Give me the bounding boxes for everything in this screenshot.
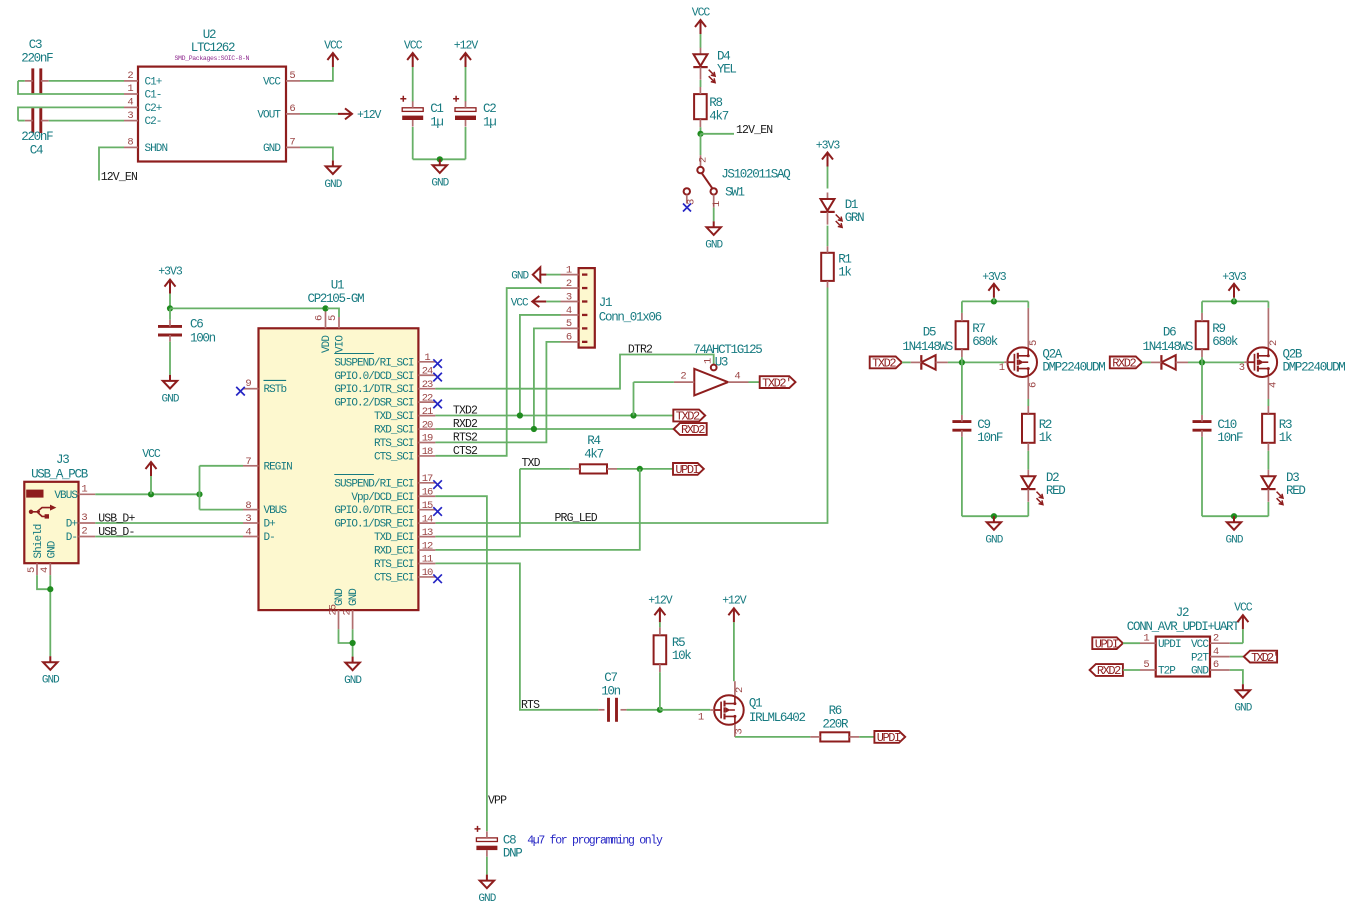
wire: [827, 226, 829, 247]
wire: [700, 127, 702, 134]
wire RTS: [435, 563, 598, 709]
svg-text:3: 3: [81, 512, 87, 524]
wire: [948, 361, 1004, 363]
svg-text:RXD2: RXD2: [681, 423, 705, 437]
wire: [660, 709, 710, 711]
svg-text:3: 3: [734, 729, 746, 735]
label RXD2: [453, 418, 478, 431]
svg-text:VCC: VCC: [692, 7, 711, 20]
wire: [95, 493, 199, 495]
IC U1 CP2105-GM: [243, 279, 435, 630]
label TXD2: [453, 405, 478, 418]
svg-text:C4: C4: [30, 144, 43, 158]
power +12V: [338, 108, 382, 122]
power VCC: [324, 40, 343, 68]
svg-text:T2P: T2P: [1158, 666, 1176, 678]
wire: [634, 381, 674, 383]
svg-text:1k: 1k: [1039, 431, 1052, 445]
svg-text:VCC: VCC: [142, 448, 161, 461]
svg-text:DMP2240UDM: DMP2240UDM: [1283, 361, 1346, 375]
ground: [42, 656, 60, 686]
power VCC: [1234, 602, 1253, 644]
svg-text:2: 2: [1268, 340, 1280, 346]
svg-text:1: 1: [424, 352, 430, 364]
wire: [962, 515, 1028, 517]
svg-text:R9: R9: [1212, 322, 1225, 336]
connector J2 CONN_AVR_UPDI+UART: [1127, 606, 1240, 678]
wire: [1188, 361, 1244, 363]
svg-text:4: 4: [734, 371, 740, 383]
wire: [749, 381, 760, 383]
wire: [1027, 301, 1029, 308]
wire: [327, 308, 339, 317]
wire: [961, 437, 963, 516]
svg-text:1: 1: [81, 484, 87, 496]
label VPP: [488, 795, 507, 808]
svg-text:11: 11: [422, 554, 433, 566]
wire: [534, 328, 561, 429]
resistor R8: [694, 87, 729, 127]
resistor R4: [570, 434, 617, 473]
wire: [961, 362, 963, 415]
svg-text:4k7: 4k7: [584, 448, 603, 462]
wire: [37, 575, 50, 589]
junction: [959, 359, 965, 365]
svg-text:15: 15: [422, 500, 433, 512]
power +3V3: [1222, 271, 1247, 301]
svg-text:+12V: +12V: [722, 594, 747, 607]
capacitor C3: [21, 38, 53, 93]
svg-text:GND: GND: [1226, 535, 1244, 547]
wire: [627, 709, 660, 711]
svg-text:5: 5: [1143, 659, 1149, 671]
svg-text:R5: R5: [672, 636, 685, 650]
junction: [991, 513, 997, 519]
svg-text:R6: R6: [829, 704, 842, 718]
no-connect: [236, 387, 245, 396]
svg-text:Q1: Q1: [749, 697, 762, 711]
svg-text:UPDI: UPDI: [1158, 639, 1181, 651]
junction: [148, 491, 154, 497]
svg-text:4µ7 for programming only: 4µ7 for programming only: [527, 835, 663, 848]
junction: [1199, 359, 1205, 365]
wire RXD2: [435, 428, 673, 430]
svg-text:SW1: SW1: [725, 186, 744, 200]
svg-text:C1-: C1-: [145, 90, 162, 102]
capacitor C7: [598, 671, 626, 722]
svg-text:220nF: 220nF: [21, 52, 53, 66]
label 12V_EN: [101, 171, 137, 184]
svg-text:Shield: Shield: [33, 524, 45, 558]
svg-text:GND: GND: [334, 588, 346, 606]
power VCC: [511, 296, 547, 309]
no-connect: [433, 359, 442, 368]
svg-text:GND: GND: [47, 540, 59, 558]
junction: [657, 707, 663, 713]
global label TXD2: [673, 410, 705, 424]
ground: [324, 160, 342, 190]
svg-text:Q2B: Q2B: [1283, 348, 1303, 362]
junction: [991, 298, 997, 304]
wire VPP: [435, 496, 487, 831]
power +12V: [454, 40, 479, 102]
diode D5 1N4148WS: [902, 326, 952, 370]
svg-text:RXD2: RXD2: [1097, 664, 1121, 678]
label USB_D-: [98, 526, 134, 539]
svg-text:2: 2: [680, 371, 686, 383]
svg-text:Q2A: Q2A: [1042, 348, 1062, 362]
LED D4: [693, 48, 736, 83]
junction: [196, 491, 202, 497]
wire: [1202, 515, 1268, 517]
svg-text:TXD2: TXD2: [453, 405, 478, 418]
transistor Q2A DMP2240UDM: [999, 308, 1106, 399]
wire: [18, 80, 25, 82]
svg-text:GND: GND: [42, 675, 60, 687]
global label RXD2: [674, 423, 707, 437]
power GND: [511, 267, 546, 282]
svg-text:4: 4: [1213, 646, 1219, 658]
svg-text:VIO: VIO: [335, 335, 347, 353]
wire: [95, 522, 243, 524]
wire: [1230, 656, 1244, 658]
wire: [633, 382, 635, 415]
no-connect: [433, 480, 442, 489]
svg-text:20: 20: [422, 419, 433, 431]
svg-text:7: 7: [245, 456, 251, 468]
wire: [902, 361, 911, 363]
svg-text:TXD_SCI: TXD_SCI: [374, 411, 414, 423]
svg-text:Conn_01x06: Conn_01x06: [599, 311, 662, 325]
wire: [1123, 669, 1140, 671]
wire: [700, 80, 702, 87]
svg-text:1k: 1k: [1279, 431, 1292, 445]
svg-text:6: 6: [566, 332, 572, 344]
svg-text:U1: U1: [331, 279, 344, 293]
svg-text:10nF: 10nF: [977, 431, 1003, 445]
svg-text:2: 2: [1213, 632, 1219, 644]
svg-text:UPDI: UPDI: [1095, 637, 1118, 651]
svg-text:GND: GND: [985, 535, 1003, 547]
junction: [350, 640, 356, 646]
svg-text:3: 3: [566, 291, 572, 303]
svg-text:CP2105-GM: CP2105-GM: [308, 292, 365, 306]
svg-text:VBUS: VBUS: [264, 505, 288, 517]
svg-text:5: 5: [26, 567, 38, 573]
wire RTS2: [435, 342, 560, 443]
switch SW1 JS102011SAQ: [684, 155, 791, 207]
no-connect: [433, 400, 442, 409]
svg-text:6: 6: [289, 103, 295, 115]
wire: [962, 300, 1028, 302]
svg-text:100n: 100n: [190, 331, 216, 345]
junction: [517, 412, 523, 418]
LED D2 RED: [1021, 470, 1065, 505]
svg-text:8: 8: [127, 137, 133, 149]
svg-text:1N4148WS: 1N4148WS: [1143, 340, 1193, 354]
svg-text:7: 7: [289, 137, 295, 149]
svg-text:U3: U3: [715, 355, 728, 369]
svg-text:3: 3: [1239, 362, 1245, 374]
svg-text:10k: 10k: [672, 649, 691, 663]
resistor R5: [654, 627, 692, 672]
wire: [18, 81, 124, 94]
svg-text:GND: GND: [162, 393, 180, 405]
svg-text:220R: 220R: [822, 718, 849, 732]
svg-text:VCC: VCC: [263, 76, 281, 88]
wire TXD: [520, 468, 570, 470]
svg-text:22: 22: [422, 392, 433, 404]
svg-text:C10: C10: [1217, 418, 1236, 432]
svg-text:1: 1: [999, 362, 1005, 374]
svg-text:RED: RED: [1046, 484, 1065, 498]
svg-text:2: 2: [566, 278, 572, 290]
wire: [435, 469, 520, 537]
svg-text:13: 13: [422, 527, 433, 539]
svg-text:+3V3: +3V3: [1222, 271, 1247, 284]
svg-text:U2: U2: [203, 28, 216, 42]
svg-text:D3: D3: [1286, 471, 1299, 485]
svg-text:TXD2: TXD2: [676, 410, 700, 424]
wire: [199, 466, 201, 510]
wire: [18, 120, 25, 122]
svg-text:CTS_ECI: CTS_ECI: [374, 572, 414, 584]
svg-text:5: 5: [289, 70, 295, 82]
svg-text:VCC: VCC: [324, 40, 343, 53]
wire: [1201, 362, 1203, 415]
wire CTS2: [435, 288, 560, 456]
svg-text:JS102011SAQ: JS102011SAQ: [721, 167, 790, 181]
svg-text:DNP: DNP: [503, 847, 522, 861]
svg-text:SMD_Packages:SOIC-8-N: SMD_Packages:SOIC-8-N: [175, 55, 250, 62]
wire: [1201, 437, 1203, 516]
svg-text:2: 2: [127, 70, 133, 82]
ground: [344, 657, 362, 687]
svg-text:R3: R3: [1279, 418, 1292, 432]
wire: [339, 629, 353, 643]
svg-text:+12V: +12V: [357, 109, 382, 122]
svg-text:D2: D2: [1046, 471, 1059, 485]
svg-text:VDD: VDD: [321, 335, 333, 353]
power +12V: [648, 594, 673, 627]
svg-text:R2: R2: [1039, 418, 1052, 432]
svg-text:8: 8: [245, 500, 251, 512]
wire: [1201, 357, 1203, 362]
wire: [200, 465, 244, 467]
svg-text:+3V3: +3V3: [158, 266, 183, 279]
svg-text:VBUS: VBUS: [54, 490, 78, 502]
wire: [859, 736, 874, 738]
svg-text:GPIO.1/DTR_SCI: GPIO.1/DTR_SCI: [334, 384, 413, 396]
svg-text:+12V: +12V: [454, 40, 479, 53]
capacitor C2: [453, 96, 496, 130]
svg-text:PRG_LED: PRG_LED: [555, 512, 598, 525]
junction: [1231, 513, 1237, 519]
power VCC: [142, 448, 161, 494]
svg-text:TXD2': TXD2': [1251, 651, 1278, 665]
svg-text:CTS_SCI: CTS_SCI: [374, 451, 414, 463]
svg-text:220nF: 220nF: [21, 130, 53, 144]
wire DTR2: [435, 355, 713, 389]
LED D3 RED: [1261, 470, 1305, 505]
ground: [985, 516, 1003, 546]
svg-text:5: 5: [566, 318, 572, 330]
wire: [659, 672, 661, 710]
ground: [478, 875, 496, 905]
wire: [1230, 670, 1243, 684]
svg-text:C2+: C2+: [145, 103, 162, 115]
junction: [637, 466, 643, 472]
wire: [1123, 642, 1140, 644]
svg-text:D-: D-: [66, 532, 77, 544]
transistor Q1 IRLML6402: [698, 681, 806, 737]
svg-text:2: 2: [698, 157, 710, 163]
no-connect: [433, 373, 442, 382]
svg-text:RSTb: RSTb: [264, 384, 287, 396]
svg-text:C8: C8: [503, 834, 516, 848]
svg-text:RXD_ECI: RXD_ECI: [374, 546, 414, 558]
svg-text:4k7: 4k7: [709, 109, 728, 123]
power VCC: [404, 40, 423, 102]
wire: [1267, 451, 1269, 470]
capacitor C1: [400, 96, 443, 130]
svg-text:VCC: VCC: [511, 297, 529, 309]
svg-text:TXD_ECI: TXD_ECI: [374, 532, 414, 544]
wire: [1230, 642, 1243, 644]
wire: [1201, 301, 1203, 313]
svg-text:GND: GND: [348, 588, 360, 606]
wire: [961, 357, 963, 362]
wire: [49, 80, 124, 82]
connector J1 Conn_01x06: [561, 264, 662, 347]
svg-text:SUSPEND/RI_SCI: SUSPEND/RI_SCI: [334, 357, 413, 369]
svg-text:VOUT: VOUT: [257, 109, 281, 121]
svg-text:RTS: RTS: [521, 699, 540, 712]
svg-text:18: 18: [422, 446, 433, 458]
svg-text:GND: GND: [478, 893, 496, 905]
svg-text:14: 14: [422, 513, 433, 525]
no-connect: [433, 507, 442, 516]
svg-text:10: 10: [422, 567, 433, 579]
svg-text:CTS2: CTS2: [453, 445, 478, 458]
wire: [713, 208, 715, 222]
svg-text:R1: R1: [838, 253, 851, 267]
wire: [1202, 300, 1268, 302]
svg-text:REGIN: REGIN: [264, 461, 293, 473]
svg-text:4: 4: [127, 97, 133, 109]
power +3V3: [816, 139, 841, 188]
svg-text:5: 5: [327, 315, 339, 321]
wire: [617, 468, 673, 470]
wire: [300, 113, 338, 115]
wire: [300, 147, 333, 160]
global label RXD2: [1110, 357, 1142, 371]
svg-text:10n: 10n: [601, 684, 620, 698]
svg-text:1µ: 1µ: [430, 115, 443, 129]
wire: [352, 629, 354, 656]
svg-text:3: 3: [127, 110, 133, 122]
svg-text:1: 1: [127, 83, 133, 95]
svg-text:RXD2: RXD2: [1112, 357, 1136, 371]
svg-text:R7: R7: [972, 322, 985, 336]
ground: [431, 159, 449, 189]
junction: [47, 586, 53, 592]
wire: [1027, 451, 1029, 470]
global label UPDI: [1092, 637, 1123, 651]
global label TXD2': [1244, 651, 1278, 665]
svg-text:DMP2240UDM: DMP2240UDM: [1042, 361, 1105, 375]
wire: [95, 536, 243, 538]
label USB_D+: [98, 512, 135, 525]
wire: [520, 315, 561, 416]
ground: [705, 221, 723, 251]
svg-text:6: 6: [1028, 382, 1040, 388]
svg-text:+3V3: +3V3: [982, 271, 1007, 284]
label PRG_LED: [555, 512, 598, 525]
svg-text:21: 21: [422, 406, 433, 418]
svg-text:GND: GND: [263, 143, 281, 155]
capacitor C9 10nF: [952, 415, 1003, 445]
svg-text:J2: J2: [1176, 606, 1189, 620]
svg-text:D4: D4: [717, 49, 730, 63]
svg-text:GPIO.0/DCD_SCI: GPIO.0/DCD_SCI: [334, 371, 413, 383]
svg-text:GND: GND: [1191, 666, 1209, 678]
svg-text:GND: GND: [324, 179, 342, 191]
capacitor C8: [475, 826, 523, 861]
svg-text:10nF: 10nF: [1217, 431, 1243, 445]
svg-text:24: 24: [422, 365, 433, 377]
svg-text:1k: 1k: [838, 266, 851, 280]
svg-text:1: 1: [698, 711, 704, 723]
label DTR2: [628, 344, 653, 357]
svg-text:GND: GND: [511, 271, 529, 283]
svg-text:UPDI: UPDI: [675, 463, 698, 477]
no-connect: [683, 204, 691, 212]
resistor R9 680k: [1196, 313, 1238, 357]
global label UPDI: [673, 463, 704, 477]
junction: [531, 426, 537, 432]
wire: [435, 469, 639, 550]
wire: [546, 301, 560, 303]
svg-text:D5: D5: [923, 326, 936, 340]
capacitor C4: [21, 108, 53, 158]
junction: [322, 305, 328, 311]
resistor R3 1k: [1262, 406, 1292, 451]
svg-text:D1: D1: [845, 198, 858, 212]
svg-text:SUSPEND/RI_ECI: SUSPEND/RI_ECI: [334, 478, 413, 490]
svg-text:USB_D-: USB_D-: [98, 526, 134, 539]
wire: [300, 67, 333, 81]
capacitor C10 10nF: [1193, 415, 1244, 445]
transistor Q2B DMP2240UDM: [1239, 308, 1346, 399]
svg-text:2: 2: [81, 526, 87, 538]
svg-text:D+: D+: [264, 519, 276, 531]
resistor R2 1k: [1022, 406, 1052, 451]
wire: [1142, 361, 1151, 363]
svg-text:C1: C1: [430, 102, 443, 116]
wire: [49, 575, 51, 656]
svg-text:GPIO.1/DSR_ECI: GPIO.1/DSR_ECI: [334, 519, 413, 531]
svg-text:J3: J3: [56, 453, 69, 467]
buffer U3 74AHCT1G125: [674, 343, 762, 396]
svg-text:GND: GND: [705, 240, 723, 252]
svg-text:Vpp/DCD_ECI: Vpp/DCD_ECI: [351, 492, 414, 504]
ground: [1226, 516, 1244, 546]
label TXD: [522, 457, 541, 470]
svg-text:P2T: P2T: [1191, 652, 1209, 664]
svg-text:YEL: YEL: [717, 63, 736, 77]
svg-text:4: 4: [1268, 382, 1280, 388]
